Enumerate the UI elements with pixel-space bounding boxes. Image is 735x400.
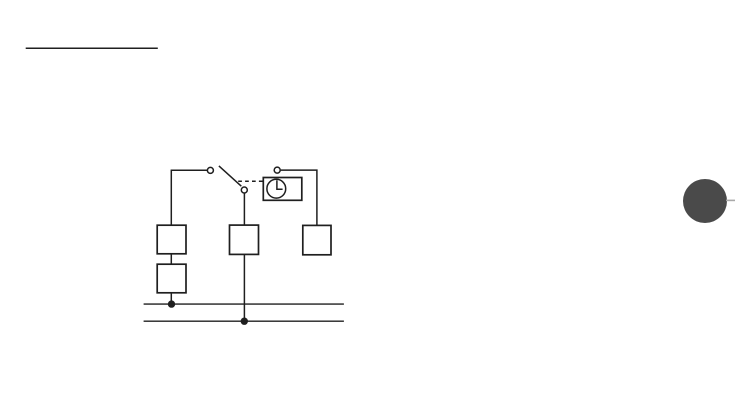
- box K3 (middle): [230, 225, 259, 254]
- junction dot on bus N: [241, 318, 248, 325]
- wire: contact b to middle box: [243, 193, 245, 225]
- bus line N: [144, 320, 344, 322]
- clock hands: [277, 180, 283, 189]
- clock face: [267, 179, 286, 198]
- cursor tail line: [726, 199, 735, 201]
- box K1 (left upper): [157, 225, 186, 254]
- switch S1 contact b: [241, 187, 247, 193]
- title underline: [26, 47, 158, 49]
- timer contact terminal: [274, 167, 280, 173]
- bus line L1: [144, 303, 344, 305]
- box K2 (left lower): [157, 264, 186, 293]
- switch S1 contact a: [207, 167, 213, 173]
- cursor dot (dark circle): [683, 179, 727, 223]
- junction dot on bus L1: [168, 300, 175, 307]
- dashed linkage switch-to-timer: [238, 180, 263, 182]
- wire: timer terminal to right box: [281, 170, 317, 225]
- wire: box K2 to bus L1: [170, 293, 172, 304]
- wire: left branch top horizontal: [171, 169, 207, 171]
- box K4 (right): [303, 225, 331, 254]
- wire: between left boxes: [170, 254, 172, 264]
- wire: left branch vertical: [170, 170, 172, 225]
- wire: middle box to bus N: [243, 254, 245, 321]
- timer box U1: [263, 178, 302, 201]
- switch S1 blade: [219, 166, 241, 186]
